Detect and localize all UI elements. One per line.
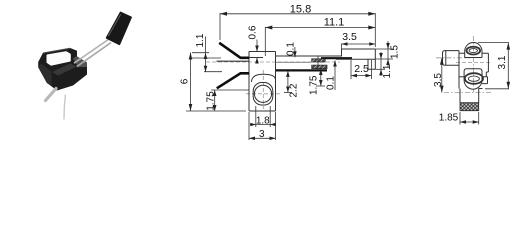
- 3 arrows: [249, 137, 255, 141]
- 3.5 arrows: [342, 42, 348, 46]
- 1.1 right arrows outside: [379, 53, 383, 59]
- dimensions end view: [442, 43, 509, 125]
- svg-text:3.5: 3.5: [433, 73, 444, 87]
- dim 0.1 lower leader: [334, 61, 336, 91]
- 0.6 arrows: [255, 46, 259, 52]
- U ellipse: [465, 73, 483, 84]
- body left edge: [458, 51, 460, 89]
- dim 3.5 left: [441, 58, 443, 93]
- body right profile: [486, 53, 488, 77]
- dim 11.1: [265, 27, 375, 29]
- 2.2 arrows: [286, 71, 290, 77]
- 1.75 right arrows: [319, 69, 323, 75]
- arm mid line: [276, 61, 311, 63]
- 3D frame top edge highlight: [43, 48, 70, 53]
- dim 1.85: [460, 112, 479, 125]
- svg-text:11.1: 11.1: [324, 17, 345, 29]
- 1.85 arrows: [460, 120, 466, 124]
- svg-text:2.5: 2.5: [354, 63, 369, 75]
- mid dashed: [456, 62, 490, 64]
- dim 0.1 upper leader: [294, 47, 296, 57]
- 1.1 left arrows: [204, 53, 208, 59]
- cylinder centerline: [436, 57, 470, 59]
- 1.5 arrows outside: [386, 43, 390, 49]
- top dome ellipse: [467, 47, 481, 55]
- U inner ellipse: [468, 76, 479, 81]
- svg-text:1.1: 1.1: [195, 33, 206, 47]
- lead upper: [219, 43, 249, 58]
- hatched pins on arm: [312, 59, 326, 62]
- leads (thick): [217, 43, 250, 89]
- svg-text:15.8: 15.8: [290, 4, 311, 16]
- dim 0.6 leader: [256, 40, 258, 64]
- dim 2.5: [351, 75, 372, 77]
- svg-text:1.85: 1.85: [439, 113, 459, 124]
- arrowheads front view: [189, 12, 390, 140]
- dim 3 bottom: [249, 112, 276, 140]
- right tab: [482, 77, 488, 84]
- left dim 1.1: [205, 37, 207, 72]
- cylinder: [443, 51, 460, 66]
- svg-text:1.75: 1.75: [309, 75, 320, 95]
- 3D bottom stub pin: [46, 89, 57, 101]
- dim 1.75 right: [320, 69, 322, 86]
- dim 1.8 bottom: [256, 106, 270, 127]
- 3.5 arrows: [440, 58, 444, 65]
- svg-text:0.1: 0.1: [326, 76, 337, 90]
- dim 15.8: [220, 13, 375, 15]
- 0.1 lower arrow: [333, 61, 337, 67]
- 3D left lower lighter face: [38, 64, 51, 86]
- svg-text:0.1: 0.1: [286, 42, 297, 56]
- hatch box: [460, 103, 479, 111]
- dim 2.2: [287, 71, 289, 93]
- U dome: [464, 69, 482, 90]
- svg-text:2.2: 2.2: [289, 83, 300, 97]
- 11.1 arrows: [265, 26, 272, 30]
- 3D slot window: [48, 52, 70, 64]
- hole circle: [254, 85, 271, 102]
- arm bottom thick: [276, 69, 327, 71]
- arm sheath thick: [321, 57, 352, 59]
- centerline horizontal through hole: [246, 93, 280, 95]
- tower ledge: [249, 57, 263, 59]
- 3D right gray top face: [73, 56, 87, 67]
- dome arc: [252, 74, 276, 82]
- svg-text:1.8: 1.8: [256, 116, 270, 127]
- 2.5 arrows: [351, 74, 357, 78]
- svg-text:3.5: 3.5: [342, 31, 357, 43]
- 3D connector block: [107, 13, 131, 44]
- svg-text:3.1: 3.1: [497, 55, 508, 69]
- 15.8 arrows: [220, 12, 227, 16]
- 3.1 arrows: [507, 43, 511, 50]
- centerline horizontal through arm: [206, 61, 340, 63]
- neck: [460, 89, 483, 103]
- 1.8 arrows outside: [250, 123, 256, 126]
- 3D pin upper long: [74, 39, 109, 63]
- tower body: [249, 52, 276, 112]
- left step line: [459, 76, 464, 78]
- dim 3.5 top right: [342, 43, 376, 45]
- obround: [253, 83, 273, 106]
- 6 arrows: [189, 53, 193, 60]
- left dim 1.75: [214, 90, 216, 111]
- 3D connector highlight: [108, 14, 121, 36]
- top dome inner ellipse: [469, 49, 477, 53]
- dim 3.1 right: [507, 43, 509, 89]
- arm top: [276, 55, 342, 57]
- svg-text:3: 3: [259, 129, 265, 140]
- lead middle thin: [217, 60, 250, 62]
- 1.75 left arrows: [213, 90, 217, 96]
- svg-text:1.1: 1.1: [382, 64, 393, 78]
- left dims: 6: [190, 53, 192, 112]
- dim 1.1 right small: [380, 52, 382, 76]
- top dome: [465, 42, 482, 57]
- vertical centerline: [472, 36, 474, 92]
- centerline vertical tower: [262, 70, 264, 109]
- 0.1 upper arrow: [293, 51, 297, 57]
- svg-text:6: 6: [180, 78, 191, 84]
- svg-text:0.6: 0.6: [247, 25, 258, 39]
- 3D body silhouette: [38, 48, 87, 91]
- shoulders: [459, 52, 488, 54]
- connector block right: [336, 49, 375, 69]
- dim 1.5 right: [387, 41, 389, 67]
- svg-text:1.5: 1.5: [390, 45, 401, 59]
- svg-text:1.75: 1.75: [206, 91, 217, 111]
- bottom dash centerline: [444, 92, 492, 94]
- 3D pin lower long: [77, 43, 111, 67]
- text labels front view: [180, 4, 401, 141]
- 3D block top face sliver: [52, 64, 77, 76]
- lead lower: [217, 73, 249, 88]
- 3D bottom thin wire: [64, 95, 66, 120]
